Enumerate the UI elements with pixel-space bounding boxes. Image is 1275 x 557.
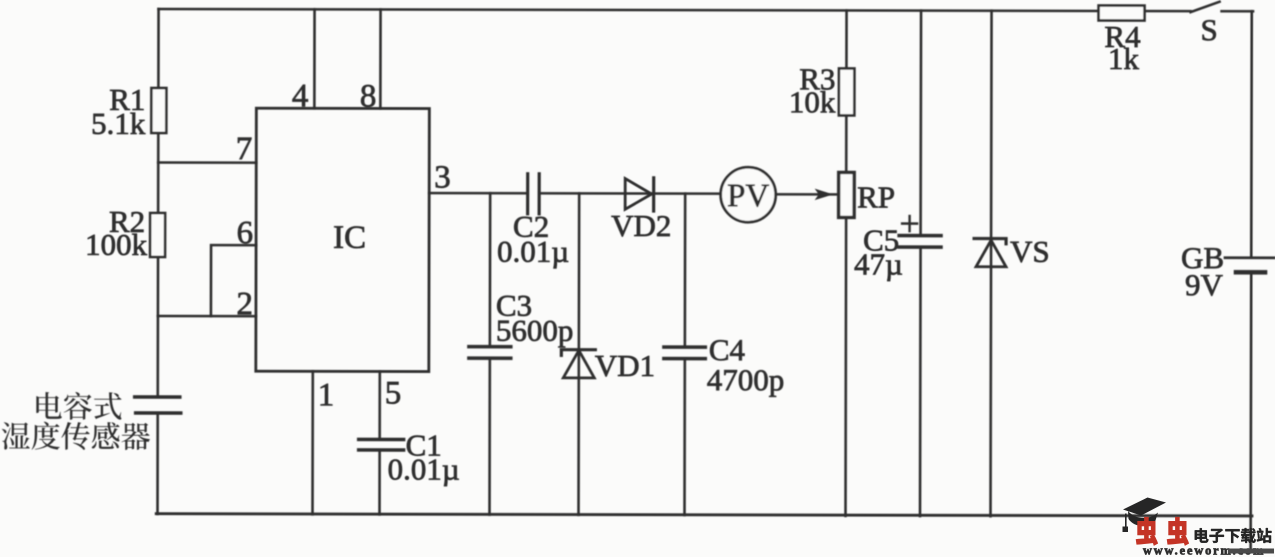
capacitor C2: [526, 174, 529, 214]
pin 2 wire: [158, 315, 256, 318]
pin 7 wire: [158, 161, 256, 164]
svg-text:S: S: [1200, 12, 1217, 47]
potentiometer RP: [839, 172, 855, 217]
svg-text:4: 4: [292, 78, 309, 114]
svg-text:1: 1: [318, 377, 335, 413]
resistor R1: [151, 88, 166, 133]
pin 8 wire: [379, 9, 382, 108]
capacitor C5 polarized: [899, 234, 941, 237]
R3 RP branch wire: [846, 10, 847, 515]
svg-text:100k: 100k: [85, 227, 148, 262]
wire right rail: [1251, 11, 1252, 551]
VS branch wire: [991, 11, 992, 516]
svg-text:47µ: 47µ: [854, 246, 903, 281]
svg-text:4700p: 4700p: [707, 362, 785, 397]
IC U1 box: [256, 108, 430, 371]
wire left rail: [158, 9, 159, 514]
svg-text:2: 2: [236, 286, 253, 322]
watermark 电子下载站: [1195, 528, 1272, 543]
VD1 branch wire: [577, 193, 580, 514]
resistor R3: [839, 68, 855, 115]
battery GB: [1225, 256, 1274, 259]
svg-text:5: 5: [385, 375, 402, 411]
pin 5 wire: [378, 371, 381, 514]
svg-text:7: 7: [236, 131, 253, 167]
svg-text:9V: 9V: [1185, 267, 1224, 302]
capacitor C4: [664, 345, 705, 348]
diode VD2: [625, 179, 652, 210]
capacitive humidity sensor plates: [135, 395, 180, 399]
pin 6 wire jog: [211, 245, 256, 316]
C4 branch wire: [683, 194, 686, 515]
watermark dark com bar: [1228, 549, 1274, 554]
sensor label 湿度传感器: [2, 422, 150, 451]
svg-text:3: 3: [434, 160, 451, 196]
svg-text:10k: 10k: [789, 84, 836, 119]
sensor label 电容式: [36, 392, 121, 420]
pin 3 wire: [429, 192, 721, 195]
svg-text:5.1k: 5.1k: [91, 106, 146, 141]
svg-text:0.01µ: 0.01µ: [388, 451, 460, 486]
svg-text:VD2: VD2: [611, 208, 671, 243]
wire top rail: [159, 9, 1253, 11]
capacitor C1: [359, 438, 404, 441]
svg-text:VD1: VD1: [595, 348, 655, 383]
svg-text:PV: PV: [727, 178, 769, 214]
zener diode VD1: [561, 350, 595, 356]
C5 branch wire: [920, 11, 921, 516]
watermark 虫虫 logo: [1136, 517, 1188, 545]
wire bottom rail: [156, 514, 1252, 516]
C3 branch wire: [488, 193, 491, 514]
resistor R4: [1099, 5, 1145, 20]
switch S blade: [1191, 2, 1220, 13]
pin 4 wire: [313, 9, 316, 108]
watermark graduation cap: [1123, 498, 1167, 533]
svg-text:8: 8: [360, 78, 377, 114]
svg-text:6: 6: [237, 215, 254, 251]
svg-text:0.01µ: 0.01µ: [497, 234, 569, 269]
svg-text:5600p: 5600p: [496, 313, 574, 348]
arrow wire to RP wiper: [776, 193, 837, 196]
capacitor C3: [469, 345, 511, 348]
resistor R2: [150, 213, 165, 257]
svg-text:1k: 1k: [1108, 41, 1140, 76]
svg-text:IC: IC: [333, 220, 366, 256]
meter PV: [721, 167, 776, 222]
svg-text:VS: VS: [1010, 234, 1050, 269]
svg-text:RP: RP: [857, 179, 895, 214]
pin 1 wire: [311, 371, 314, 514]
zener diode VS: [974, 239, 1006, 244]
